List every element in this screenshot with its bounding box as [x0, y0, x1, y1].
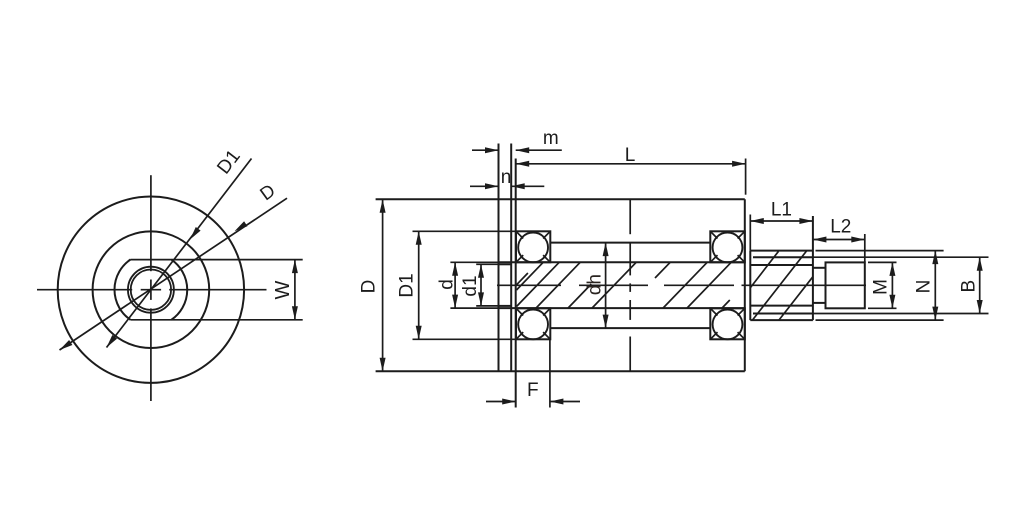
screw thread major line top with N extension — [750, 250, 943, 252]
label d — [437, 279, 458, 290]
dimension d — [452, 262, 458, 308]
dimension F — [486, 399, 580, 405]
label N — [914, 280, 935, 294]
shaft upper line (d) with extension — [450, 261, 744, 263]
screw thread major line bottom with N extension — [750, 319, 943, 321]
section: body middle chain line — [629, 199, 631, 371]
label m — [543, 128, 559, 149]
shaft step lower line (d1) with extension — [476, 305, 511, 307]
thread section hatch — [751, 251, 813, 320]
undercut groove top line — [813, 267, 826, 269]
section: body left face / extension line — [515, 159, 517, 408]
svg-text:D: D — [359, 280, 380, 294]
svg-text:L2: L2 — [830, 217, 851, 238]
left view: thread outer circle — [128, 267, 174, 313]
leader line D — [60, 198, 288, 350]
label L — [625, 145, 636, 166]
svg-text:L1: L1 — [771, 199, 792, 220]
label n — [501, 167, 512, 188]
dimension n — [470, 183, 544, 189]
dimension D1 — [416, 231, 422, 339]
dimension W — [292, 260, 298, 320]
dimension N — [932, 251, 938, 321]
left view: top flat line / W extension — [131, 259, 303, 261]
left view: pilot circle right arc — [171, 260, 187, 320]
section: top outline (D extension + flange + body top edge) — [376, 198, 745, 200]
undercut groove bottom line — [813, 302, 826, 304]
section: flange left face — [498, 144, 500, 372]
dimension F right extension line — [549, 340, 551, 408]
leader line D1 — [107, 159, 252, 348]
dimension L — [516, 161, 746, 167]
screw thread minor line top with B extension — [753, 256, 989, 258]
dimension d1 — [478, 264, 484, 306]
bearing bottom-right — [710, 308, 745, 339]
screw shaft core line bottom — [750, 305, 813, 307]
dimension M extension lines — [868, 262, 897, 308]
bearing bore line lower (dh) — [550, 327, 710, 329]
svg-text:M: M — [871, 279, 892, 295]
label B — [958, 280, 979, 293]
dimension m — [472, 147, 562, 153]
screw shaft core line top — [750, 264, 813, 266]
bearing bottom-left — [516, 308, 550, 339]
left view: body circle (D1) — [93, 231, 210, 348]
shaft section hatch — [517, 262, 732, 308]
section: flange right face — [510, 144, 512, 372]
svg-text:n: n — [501, 167, 512, 188]
label L1 — [771, 199, 792, 220]
svg-text:W: W — [272, 280, 294, 299]
dimension M — [889, 262, 895, 308]
svg-text:dh: dh — [584, 274, 605, 295]
dimension L1 — [750, 218, 813, 224]
left view: bottom flat line / W extension — [131, 319, 303, 321]
left view: horizontal centerline — [37, 289, 267, 291]
label dh — [584, 274, 605, 295]
svg-text:D1: D1 — [397, 273, 418, 297]
label D (left view) — [256, 179, 279, 204]
label F — [527, 380, 539, 401]
svg-text:d: d — [437, 279, 458, 290]
svg-text:d1: d1 — [460, 275, 481, 296]
svg-text:L: L — [625, 145, 636, 166]
label D1 — [213, 146, 244, 178]
dimension dh — [603, 243, 609, 329]
svg-text:F: F — [527, 380, 539, 401]
bearing top-right — [710, 231, 745, 262]
dimension L1 left extension line — [749, 215, 751, 251]
label M — [871, 279, 892, 295]
dimension D — [380, 199, 386, 371]
screw thread minor line bottom with B extension — [753, 313, 989, 315]
label d1 — [460, 275, 481, 296]
label D (section) — [359, 280, 380, 294]
main axis centerline — [497, 284, 866, 286]
bearing bore line upper (dh) — [550, 242, 710, 244]
left view: pilot circle left arc — [114, 260, 130, 320]
svg-text:B: B — [958, 280, 979, 293]
svg-text:N: N — [914, 280, 935, 294]
left view: flange outer circle (D) — [58, 197, 244, 383]
label L2 — [830, 217, 851, 238]
section: body right face — [744, 199, 746, 371]
bearing top-left — [516, 231, 550, 262]
screw end journal (M section) — [826, 262, 865, 308]
dimension L2 — [813, 237, 865, 243]
label D1 (section) — [397, 273, 418, 297]
left view: vertical centerline — [150, 175, 152, 401]
screw thread left edge — [749, 251, 751, 321]
shaft step upper line (d1) with extension — [476, 263, 511, 265]
svg-text:m: m — [543, 128, 559, 149]
dimension B — [977, 257, 983, 313]
left view: thread inner circle — [131, 270, 171, 310]
screw thread right edge / L1-L2 extension — [812, 216, 814, 320]
label W — [272, 280, 294, 299]
dimension D1 extension lines — [413, 231, 517, 339]
shaft lower line (d) with extension — [450, 307, 744, 309]
dimension L2 right extension line — [864, 234, 866, 262]
dimension L right extension line — [745, 159, 747, 195]
section: bottom outline (D extension + flange + body bottom edge) — [376, 370, 745, 372]
